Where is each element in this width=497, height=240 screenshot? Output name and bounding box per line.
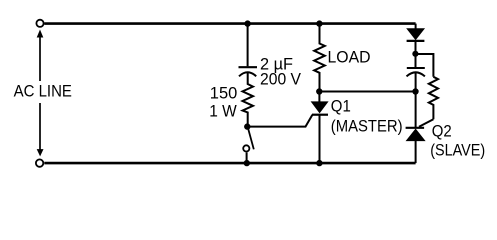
capacitor C1 2uF 200V (239, 67, 258, 76)
wire C1 branch down (247, 24, 249, 67)
wire bottom horizontal (44, 162, 415, 165)
diode D1 (407, 29, 425, 41)
node junction dot gate/switch (244, 123, 250, 129)
svg-text:(MASTER): (MASTER) (331, 117, 403, 136)
svg-text:200 V: 200 V (260, 70, 302, 89)
svg-text:150: 150 (210, 83, 238, 102)
wire rung y91.5 (319, 90, 415, 92)
resistor R1 150 1W (243, 73, 254, 127)
svg-text:LOAD: LOAD (328, 47, 371, 66)
switch S1 blade (248, 127, 254, 149)
resistor LOAD (314, 24, 325, 92)
switch S1 contact (243, 145, 249, 151)
wire Q2 gate (419, 119, 433, 127)
terminal bottom-left (36, 159, 43, 166)
wire to R2 branch (415, 54, 433, 77)
wire switch to bottom (246, 152, 248, 163)
thyristor Q1 (312, 92, 328, 164)
node junction dot D1 bottom (412, 51, 418, 57)
svg-text:1 W: 1 W (209, 102, 237, 121)
wire C2 to dot (415, 73, 417, 92)
node junction dot LOAD bottom (316, 88, 322, 94)
capacitor C2 (407, 68, 425, 76)
svg-text:Q2: Q2 (432, 121, 452, 140)
node AC LINE arrow (37, 30, 44, 157)
svg-text:AC LINE: AC LINE (14, 81, 72, 100)
thyristor Q2 (406, 92, 425, 164)
node junction dot bottom switch (244, 160, 250, 166)
wire diode to C2 (415, 41, 417, 67)
node junction dot C1 top (244, 20, 250, 26)
terminal top-left (36, 20, 43, 27)
node junction dot Q1 bottom (316, 160, 322, 166)
node junction dot rung right (412, 88, 418, 94)
wire top horizontal (44, 22, 415, 25)
node junction dot LOAD top (316, 20, 322, 26)
svg-text:(SLAVE): (SLAVE) (430, 141, 485, 160)
wire Q1 gate (247, 115, 312, 127)
resistor R2 (429, 77, 438, 120)
svg-text:Q1: Q1 (331, 96, 351, 115)
wire top right corner down (415, 24, 417, 29)
